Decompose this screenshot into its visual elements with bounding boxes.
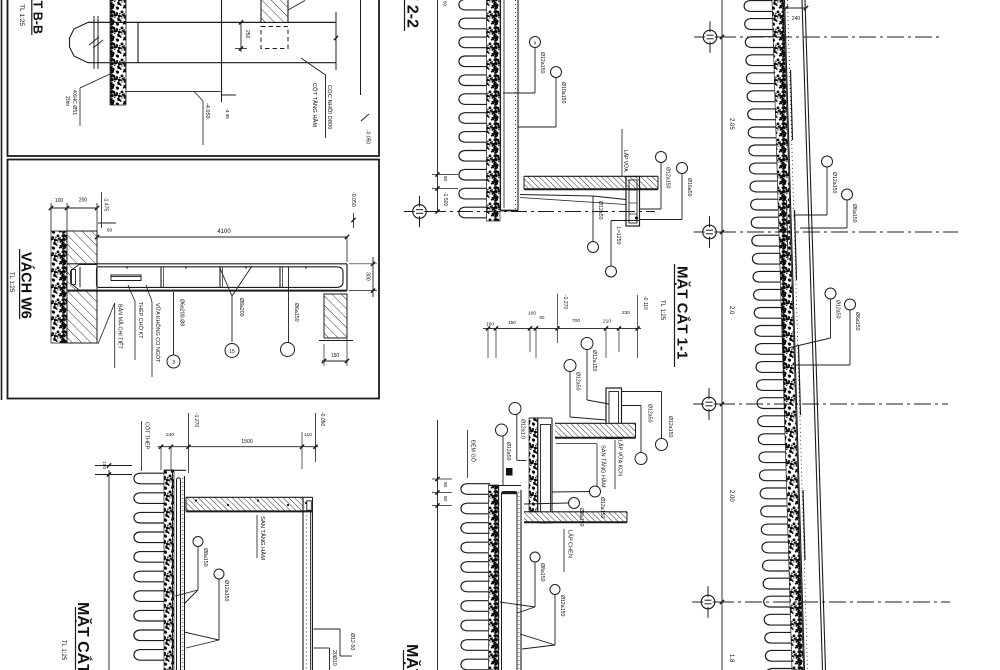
dim chain C — [158, 446, 319, 448]
callout c1 E — [581, 338, 593, 350]
lower wall left line E — [498, 486, 500, 670]
svg-text:200: 200 — [79, 198, 88, 204]
slab D right edge — [657, 176, 659, 189]
lower wall dotted E — [518, 492, 520, 670]
callout circle w1 E — [509, 403, 521, 415]
level tick and 50 dim B — [98, 222, 116, 224]
hatched column section A — [261, 0, 288, 22]
leader from hatched column A — [288, 1, 305, 11]
slab1 E right edge — [635, 423, 637, 438]
slab end stirrup C — [307, 501, 312, 511]
svg-text:-4.05: -4.05 — [224, 108, 230, 119]
axis dashdot line F2 — [719, 231, 958, 233]
label LAP CHEN E — [563, 529, 565, 572]
upper callout 1 F — [822, 156, 833, 167]
wall below slab inner line C — [310, 511, 312, 670]
slab C left edge — [185, 497, 187, 511]
svg-text:VỮA KHÔNG CO NGÓT: VỮA KHÔNG CO NGÓT — [154, 303, 161, 363]
svg-text:Ø8a200: Ø8a200 — [238, 298, 244, 317]
svg-text:TL 1:25: TL 1:25 — [659, 300, 665, 321]
mid callout 2 F — [845, 299, 856, 310]
leader circle right B — [288, 267, 290, 343]
lower wall right line E — [520, 490, 522, 670]
cage bottom black bar E — [610, 430, 618, 435]
svg-text:110: 110 — [304, 432, 312, 438]
svg-text:1.8: 1.8 — [728, 654, 734, 663]
svg-text:Ø12a50: Ø12a50 — [597, 201, 603, 220]
svg-text:50: 50 — [540, 315, 545, 320]
speckle band F — [772, 0, 804, 670]
axis bubble F1 — [703, 30, 717, 44]
label COT THEP C — [141, 421, 143, 471]
beam left cap B — [79, 267, 81, 288]
cage outer E — [606, 388, 622, 439]
svg-text:Ø10a150: Ø10a150 — [560, 82, 566, 103]
slab C bottom line — [186, 510, 313, 512]
callout circle r2 D — [677, 163, 688, 174]
svg-text:-1.475: -1.475 — [103, 197, 109, 211]
svg-text:-1.270: -1.270 — [562, 295, 568, 309]
svg-text:-0.050: -0.050 — [365, 130, 371, 144]
label leader 2 B — [128, 285, 135, 301]
wall line F right 1 — [802, 0, 823, 670]
wall dotted line D — [515, 0, 517, 210]
top dim 240 F — [786, 7, 806, 9]
label SAN TANG HAM C — [256, 515, 258, 558]
wall dotted line C — [182, 478, 184, 670]
beam rebar inner outline B — [97, 267, 344, 288]
beam bottom line A — [88, 62, 336, 64]
wall inner rebar D — [503, 0, 505, 208]
svg-text:TL 1:25: TL 1:25 — [18, 4, 25, 26]
column label divider A — [325, 75, 327, 138]
bottom callout 1 E — [530, 552, 540, 562]
leader right 2 D — [640, 219, 683, 221]
title MAT CAT 1-1 E — [674, 264, 676, 367]
wall below slab left line C — [302, 497, 304, 670]
svg-text:4XHC Ø51: 4XHC Ø51 — [71, 90, 77, 115]
axis bubble F4 — [701, 595, 715, 609]
svg-text:50: 50 — [443, 482, 448, 488]
small dims D — [432, 174, 458, 176]
stirrup dots B — [126, 266, 128, 268]
cage dot D — [635, 216, 638, 219]
svg-text:LẤP CHÈN: LẤP CHÈN — [567, 530, 574, 558]
lower callout 1 D — [520, 195, 593, 197]
svg-text:Ø12a50: Ø12a50 — [575, 372, 581, 391]
svg-text:BẢN MÃ-CHI TIẾT: BẢN MÃ-CHI TIẾT — [117, 304, 124, 350]
svg-text:LẤP VỮA KCN: LẤP VỮA KCN — [617, 440, 624, 476]
mid callout 2 E — [552, 491, 590, 494]
right callout 2 E — [622, 405, 642, 407]
svg-text:Ø12a150: Ø12a150 — [559, 595, 565, 616]
svg-text:LẤP VỮA: LẤP VỮA — [622, 150, 629, 172]
svg-text:Ø12a150: Ø12a150 — [667, 416, 673, 437]
svg-text:Ø12a150: Ø12a150 — [665, 167, 671, 188]
lower callout 2 D — [611, 220, 640, 222]
beam left rounded cap A — [70, 22, 89, 62]
svg-text:-1.270: -1.270 — [193, 413, 199, 427]
speckle band D — [487, 0, 501, 221]
svg-text:MẶT CẮT B-B: MẶT CẮT B-B — [31, 0, 46, 34]
leader V circle 15 B — [219, 266, 232, 296]
border frame outer left line — [1, 0, 3, 400]
axis dashdot line F4 — [717, 601, 950, 603]
svg-text:1500: 1500 — [241, 439, 253, 445]
callout circle 15 B — [225, 344, 239, 358]
level dashdot line D — [430, 211, 655, 213]
axis dashdot line F3 — [718, 403, 948, 405]
svg-text:240: 240 — [166, 432, 174, 438]
title underline VACH W6 — [19, 249, 21, 319]
label 2 underline B — [134, 301, 136, 360]
wall line F right 2 — [805, 0, 826, 670]
callout circle r1 D — [656, 152, 667, 163]
slab2 E hatch — [524, 512, 627, 522]
callout circle b C — [214, 569, 224, 579]
dim line 100 200 B — [51, 207, 97, 209]
svg-text:230: 230 — [622, 310, 630, 316]
sheet pile teeth F — [744, 1, 793, 670]
speckled form strip E — [529, 418, 538, 512]
svg-text:Ø12a150: Ø12a150 — [831, 172, 837, 193]
mid callout 1 E — [524, 503, 568, 504]
svg-text:100: 100 — [486, 322, 494, 328]
svg-text:SÀN TẦNG HẦM: SÀN TẦNG HẦM — [259, 516, 266, 560]
title text 2-2 D — [404, 0, 406, 31]
inner content line A right — [360, 0, 362, 95]
svg-text:Ø12-50: Ø12-50 — [349, 633, 355, 650]
svg-text:300: 300 — [365, 272, 371, 281]
slab1 E bottom — [555, 437, 636, 439]
svg-text:2.0: 2.0 — [728, 306, 734, 315]
slab1 E hatch — [555, 423, 636, 438]
wall left line C — [172, 470, 174, 670]
svg-text:Ø6a200-Ø8: Ø6a200-Ø8 — [179, 299, 185, 326]
axis bubble F3 — [702, 397, 716, 411]
svg-text:50: 50 — [107, 228, 113, 234]
label leader hline E — [556, 443, 597, 445]
small dim 100 left C — [95, 465, 132, 467]
cage inner D — [629, 180, 637, 223]
svg-text:VÁCH W6: VÁCH W6 — [18, 252, 35, 319]
second label col E — [614, 440, 616, 489]
panel B frame (VACH W6) — [8, 160, 380, 399]
svg-text:Ø8a150: Ø8a150 — [539, 563, 545, 582]
svg-text:700: 700 — [572, 318, 580, 324]
svg-text:150: 150 — [508, 320, 516, 326]
svg-text:2.05: 2.05 — [728, 118, 734, 130]
lower wall inner rebar E — [502, 492, 518, 670]
rebar section mark E — [506, 468, 513, 476]
lower wall top cap E — [502, 491, 518, 494]
svg-text:250: 250 — [244, 30, 250, 39]
svg-text:CỌC NHỒI D800: CỌC NHỒI D800 — [326, 85, 333, 129]
label 3 underline B — [151, 302, 153, 377]
slab2 E top — [524, 511, 627, 513]
svg-text:Ø12a50: Ø12a50 — [647, 404, 653, 423]
svg-text:Ø8a150: Ø8a150 — [578, 508, 584, 527]
column face line A — [137, 22, 139, 62]
svg-text:MẶT CẮT 2-2: MẶT CẮT 2-2 — [404, 0, 423, 28]
rebar splice segments F — [791, 70, 793, 140]
upper wall inner rect E — [541, 425, 551, 524]
dim 300 B — [372, 257, 374, 297]
svg-text:150: 150 — [331, 353, 340, 359]
wall below slab dotted C — [305, 511, 307, 670]
svg-text:ĐỆM GỖ: ĐỆM GỖ — [470, 440, 478, 462]
beam right end line B — [346, 264, 348, 291]
hatch bottom extension B — [319, 340, 353, 342]
lower wall cap E — [489, 485, 522, 487]
wall bottom edge D — [501, 210, 519, 212]
axis ticks F — [720, 35, 724, 39]
leader 2 D — [518, 126, 556, 128]
elevation tick A — [222, 94, 237, 96]
ext line E lower — [437, 420, 439, 670]
label DEM GO E — [467, 430, 469, 478]
right extension line A — [335, 12, 337, 70]
speckle band C — [164, 470, 174, 670]
cage outer D — [626, 177, 640, 227]
svg-text:Ø12a50: Ø12a50 — [505, 442, 511, 461]
svg-text:4100: 4100 — [217, 229, 231, 235]
axis dashdot line F1 — [719, 36, 943, 38]
small dims E lower — [432, 478, 452, 480]
svg-text:240: 240 — [792, 16, 801, 22]
break symbol double lines — [93, 16, 95, 69]
slab D bottom line — [524, 188, 658, 190]
svg-text:2.00: 2.00 — [728, 490, 734, 502]
slab D hatch — [524, 176, 658, 189]
svg-text:100: 100 — [528, 311, 536, 317]
wall line F a — [785, 0, 805, 670]
title bottom partial E — [403, 650, 405, 670]
label LAP D — [621, 129, 623, 176]
beam pocket in hatch B — [71, 265, 98, 291]
wall below slab right line C — [312, 497, 314, 670]
svg-text:CỘT TẦNG HẦM: CỘT TẦNG HẦM — [311, 83, 318, 127]
dim extension lines C — [160, 447, 162, 470]
wall speckled band B — [51, 231, 67, 343]
svg-text:210: 210 — [603, 319, 611, 325]
dim 4100 line B — [97, 236, 347, 238]
svg-text:THÉP CHỜ KT: THÉP CHỜ KT — [137, 302, 144, 339]
beam bottom line B — [67, 290, 347, 292]
stirrup 2 B — [219, 267, 221, 287]
svg-text:Ø12a150: Ø12a150 — [591, 350, 597, 371]
svg-text:Ø6a150: Ø6a150 — [293, 303, 299, 322]
svg-text:L=1250: L=1250 — [615, 227, 621, 245]
callout c2 E — [564, 360, 576, 372]
svg-text:100: 100 — [101, 461, 107, 469]
svg-text:-1.500: -1.500 — [442, 192, 448, 206]
label 1 underline B — [114, 303, 116, 368]
wall top cap C — [164, 469, 186, 471]
svg-text:MẶT CẮT 1-1: MẶT CẮT 1-1 — [674, 266, 692, 359]
beam top line B — [67, 263, 347, 265]
upper wall cap E — [529, 417, 552, 419]
dim 250 line A — [240, 22, 242, 52]
callout circle 1 D — [530, 37, 541, 48]
svg-text:Ø12a1.0: Ø12a1.0 — [520, 419, 526, 439]
sheet pile teeth C — [134, 473, 166, 660]
cage inner E — [609, 392, 619, 436]
dashed column below A — [261, 27, 288, 49]
lower wall teeth E — [461, 484, 490, 670]
sheet pile teeth D — [459, 0, 489, 218]
callout circle 2 D — [551, 67, 562, 78]
axis dim line F — [721, 0, 723, 670]
leader right 1 D — [640, 208, 662, 210]
svg-text:20m: 20m — [64, 96, 70, 106]
stirrup 3 B — [279, 267, 281, 287]
title underline section B-B — [31, 0, 33, 35]
leader 1 D — [503, 92, 535, 94]
svg-text:50: 50 — [443, 176, 448, 182]
wall left line D — [500, 0, 502, 211]
stirrup 1 B — [160, 267, 162, 287]
svg-text:Ø16a50: Ø16a50 — [686, 178, 692, 197]
dim 150 B — [322, 360, 347, 362]
svg-text:SÀN TẦNG HẦM: SÀN TẦNG HẦM — [600, 445, 607, 488]
svg-text:Ø12a150: Ø12a150 — [539, 52, 545, 73]
svg-text:50: 50 — [443, 1, 448, 7]
wall hatched band B — [67, 231, 97, 343]
elevation leader A — [194, 91, 203, 101]
svg-text:15: 15 — [229, 349, 235, 355]
axis bubble D — [413, 205, 427, 219]
svg-text:-4.050: -4.050 — [204, 103, 210, 119]
callout circle w2 E — [496, 424, 508, 436]
beam top line A — [88, 21, 336, 23]
left extension line C — [108, 470, 110, 670]
leader circle 3 B — [173, 292, 175, 355]
slab C hatch — [186, 497, 305, 511]
column axis line A — [221, 0, 223, 95]
title text MAT CAT 3-3 C — [75, 607, 77, 670]
hatched wall below beam right B — [324, 294, 347, 338]
cage ticks D — [629, 189, 637, 191]
svg-text:TL 1:25: TL 1:25 — [60, 640, 66, 661]
svg-text:Ø8a150: Ø8a150 — [202, 548, 208, 567]
wall right line D — [517, 0, 519, 211]
svg-text:MẶT CẮT 3-3: MẶT CẮT 3-3 — [74, 602, 93, 670]
leader to column label A — [301, 58, 326, 75]
slab2 E bottom — [524, 521, 627, 523]
lower wall speckle E — [489, 485, 499, 670]
svg-text:-0.050: -0.050 — [350, 192, 356, 207]
svg-text:Ø6a150: Ø6a150 — [854, 312, 860, 331]
pile speckled band A — [110, 0, 126, 105]
dim chain E — [483, 327, 641, 329]
svg-text:9: 9 — [534, 40, 537, 45]
slab D top line — [524, 175, 658, 177]
bottom callout 2 E — [550, 585, 560, 595]
svg-text:Ø6a150: Ø6a150 — [851, 204, 857, 223]
wall dotted line F — [788, 0, 808, 670]
svg-text:CỐT THÉP: CỐT THÉP — [144, 422, 151, 449]
svg-text:Ø12a150: Ø12a150 — [223, 580, 229, 601]
elevation line -4.050 A — [125, 90, 221, 92]
wall right line C — [184, 476, 186, 670]
beam cap plate B — [72, 270, 76, 285]
svg-text:-0.110: -0.110 — [642, 296, 648, 310]
label SAN TANG HAM E — [596, 444, 598, 487]
slab C top line — [186, 496, 313, 498]
callout circle a C — [193, 537, 203, 547]
slab2 E right edge — [626, 512, 628, 522]
svg-text:TL 1:25: TL 1:25 — [8, 272, 14, 293]
svg-text:Ø12a50: Ø12a50 — [835, 300, 841, 319]
svg-text:100: 100 — [55, 198, 64, 204]
upper wall left line E — [537, 418, 539, 523]
label leader 1 B — [98, 303, 115, 344]
svg-text:20Ø10: 20Ø10 — [331, 650, 337, 666]
svg-text:MẶT CẮT 1-1: MẶT CẮT 1-1 — [403, 644, 422, 670]
mid callout 1 F — [825, 288, 836, 299]
panel A frame (section B-B) — [8, 0, 380, 156]
svg-text:Ø12a150: Ø12a150 — [599, 497, 605, 518]
svg-text:3: 3 — [172, 360, 175, 366]
extension line D — [437, 0, 439, 212]
slab rebar dots C — [195, 499, 197, 501]
svg-text:50: 50 — [443, 496, 448, 502]
steel plate detail B — [111, 275, 141, 281]
upper callout 2 F — [842, 189, 853, 200]
callout circle right B — [281, 343, 295, 357]
callout circle 3 B — [167, 355, 180, 368]
slab1 E top — [555, 422, 636, 424]
bottom right leader steps C — [314, 628, 341, 630]
label leader 3 B — [146, 285, 152, 302]
wall rebar inner C — [177, 478, 181, 670]
slab D left edge — [523, 176, 525, 189]
upper wall right line E — [551, 418, 553, 523]
right callout 1 E — [622, 391, 662, 393]
pile leader A — [80, 74, 110, 88]
svg-text:-0.050: -0.050 — [319, 412, 325, 426]
dim extensions E — [487, 328, 489, 358]
axis bubble F2 — [703, 225, 717, 239]
pile label underline A — [79, 88, 81, 126]
